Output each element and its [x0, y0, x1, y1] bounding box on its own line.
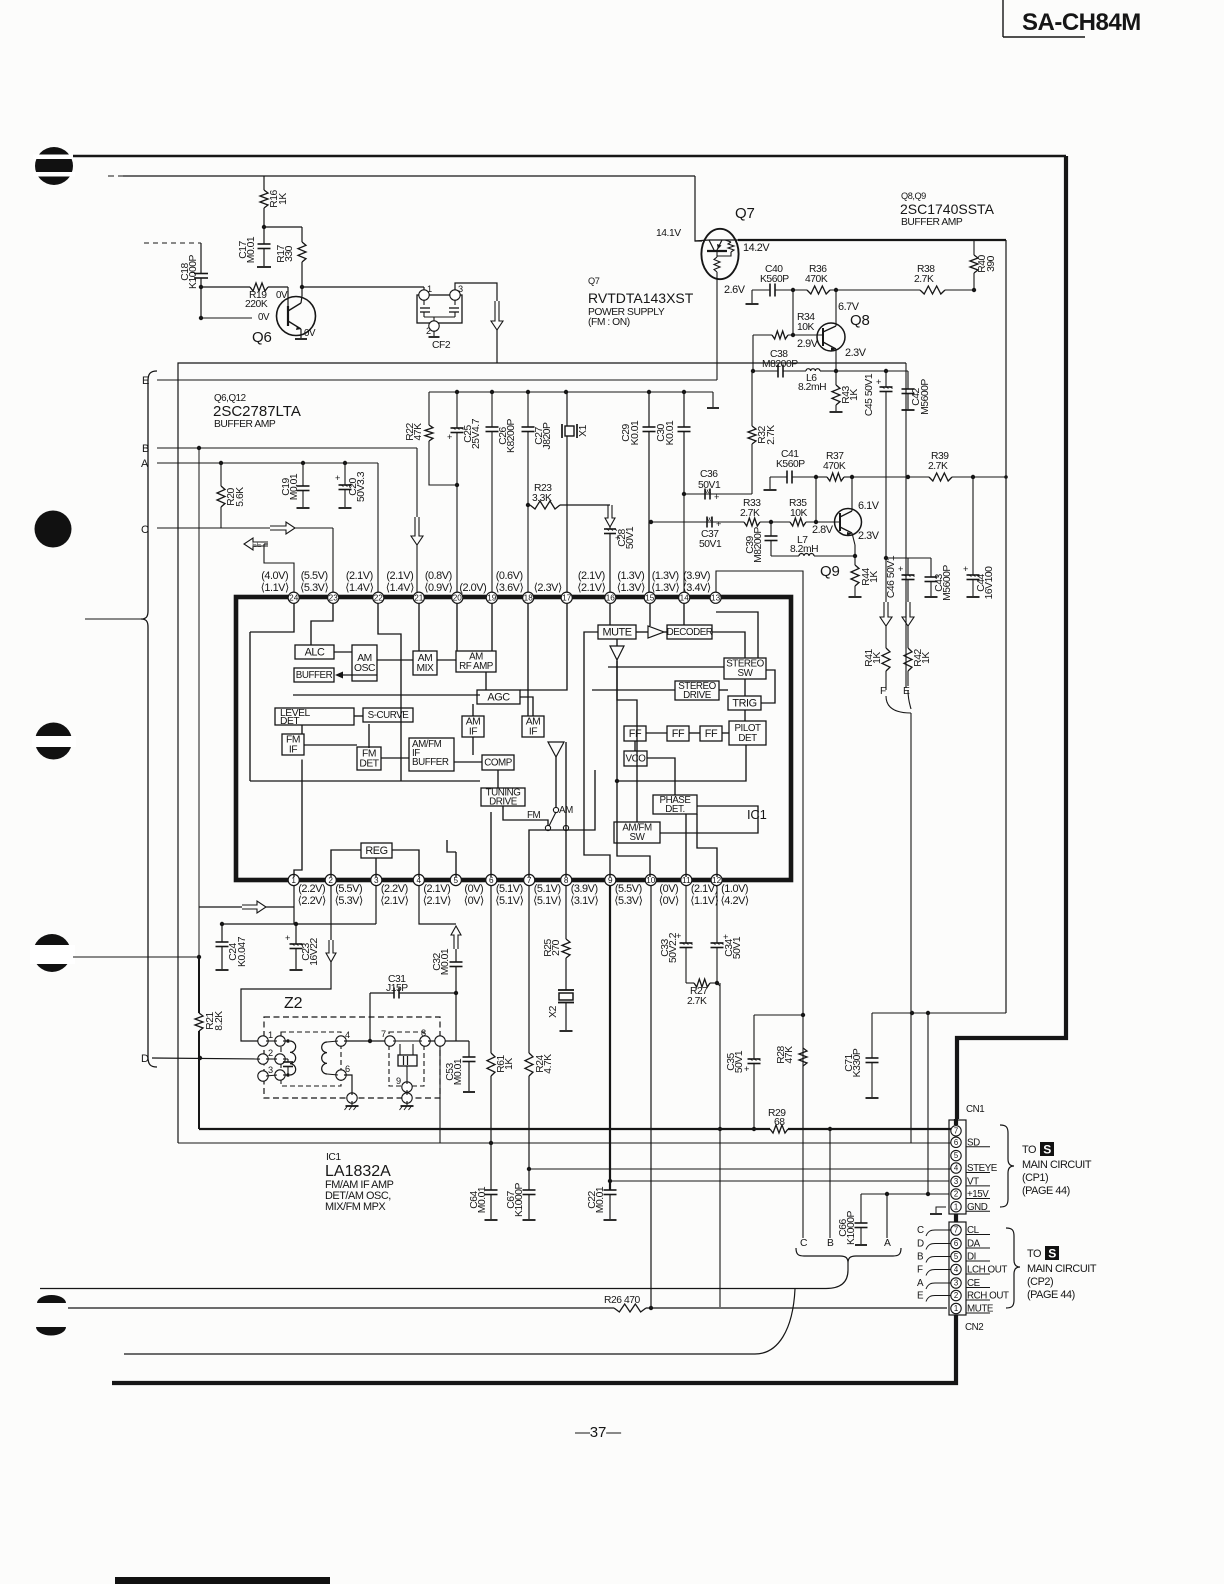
svg-text:10K: 10K	[790, 508, 808, 519]
wire pin13 outer	[716, 571, 803, 1129]
connector CN1 label	[966, 1104, 984, 1115]
capacitor C20	[335, 463, 367, 508]
net arrow C28	[605, 505, 615, 527]
block AM IF 2	[522, 716, 544, 738]
pin 13	[682, 570, 721, 603]
svg-text:SW: SW	[630, 832, 646, 843]
wire pin15 col	[648, 522, 650, 592]
label Q6	[252, 329, 272, 346]
capacitor C19	[281, 463, 310, 508]
label D net	[141, 1053, 149, 1065]
svg-text:(2.1V): (2.1V)	[578, 570, 605, 582]
net arrow pin1	[199, 901, 294, 913]
connector CN2 label	[965, 1322, 983, 1333]
junction	[972, 288, 976, 292]
voltage 6.7V	[838, 301, 860, 313]
svg-text:S-CURVE: S-CURVE	[368, 710, 410, 721]
wire Z2 link	[344, 1040, 387, 1042]
svg-text:K560P: K560P	[776, 459, 805, 470]
net arrow pin4	[451, 926, 461, 949]
junction	[649, 520, 653, 524]
capacitor C64	[469, 1186, 498, 1220]
registration mark 1	[33, 147, 75, 185]
label Z2	[284, 995, 303, 1012]
pin 14	[651, 570, 690, 603]
svg-text:25V4.7: 25V4.7	[471, 418, 482, 449]
net arrow EE left	[244, 538, 268, 550]
svg-text:M0.01: M0.01	[453, 1058, 464, 1085]
svg-text:0V: 0V	[258, 312, 270, 323]
svg-text:4: 4	[954, 1164, 959, 1173]
thick CN2 bottom	[112, 1315, 956, 1383]
svg-text:EE: EE	[252, 540, 262, 549]
wire R37 to R39	[852, 476, 929, 478]
pin 10	[645, 874, 679, 907]
wire 1006 down	[1005, 240, 1007, 1013]
label A node	[884, 1238, 891, 1249]
capacitor C35	[726, 1015, 761, 1129]
mute triangle	[610, 646, 624, 660]
inductor L6	[798, 369, 836, 393]
junction	[769, 520, 773, 524]
resistor R21	[195, 957, 225, 1129]
wire C35 top	[752, 1013, 805, 1131]
svg-text:8: 8	[421, 1028, 426, 1038]
thick right border	[957, 156, 1066, 1119]
junction	[526, 503, 530, 507]
svg-text:50V3.3: 50V3.3	[356, 471, 367, 502]
svg-text:(CP2): (CP2)	[1027, 1276, 1053, 1288]
svg-text:A: A	[141, 458, 149, 470]
wire C41 div	[815, 477, 817, 522]
resistor R42	[904, 626, 932, 686]
svg-text:1: 1	[268, 1030, 273, 1040]
svg-text:M5600P: M5600P	[920, 379, 931, 415]
junction	[834, 369, 838, 373]
capacitor C37	[699, 517, 722, 551]
svg-text:0V: 0V	[304, 328, 316, 339]
capacitor C36	[698, 469, 721, 502]
voltage 14.2V	[743, 242, 770, 254]
pin 15	[617, 570, 656, 603]
resistor R40	[970, 240, 997, 290]
junction	[715, 981, 719, 985]
svg-text:(CP1): (CP1)	[1022, 1172, 1048, 1184]
wire B line	[157, 448, 417, 517]
svg-text:—37—: —37—	[575, 1424, 621, 1441]
svg-text:270: 270	[551, 939, 562, 956]
svg-text:⟨2.1V⟩: ⟨2.1V⟩	[380, 895, 408, 907]
label 2SC2787LTA	[213, 393, 301, 430]
svg-text:C45 50V1: C45 50V1	[864, 373, 875, 416]
svg-text:F: F	[880, 686, 886, 697]
wire brace lead	[85, 618, 141, 620]
svg-text:Q8: Q8	[850, 312, 870, 329]
pin 24	[261, 570, 300, 603]
svg-text:Q9: Q9	[820, 563, 840, 580]
svg-text:D: D	[141, 1053, 149, 1065]
block AM MIX	[413, 651, 437, 675]
IC1 internal wires	[250, 603, 775, 877]
svg-text:K560P: K560P	[760, 274, 789, 285]
wire second rail	[108, 175, 695, 177]
svg-text:RVTDTA143XST: RVTDTA143XST	[588, 290, 694, 306]
svg-text:Q7: Q7	[735, 205, 755, 222]
wire Q8 emitter	[835, 349, 837, 371]
wire +15V line	[861, 1192, 949, 1196]
capacitor C26	[486, 392, 518, 592]
inductor L7	[771, 535, 855, 556]
wire pin2 riser	[330, 886, 332, 941]
transistor Q8	[817, 323, 845, 351]
junction	[219, 461, 223, 465]
svg-text:1K: 1K	[921, 652, 932, 664]
pin 2	[325, 874, 363, 907]
svg-text:A: A	[917, 1278, 924, 1289]
wire pin12 col down	[717, 983, 720, 1307]
capacitor C33	[660, 886, 693, 984]
voltage 6.1V	[858, 500, 880, 512]
svg-text:D: D	[917, 1239, 924, 1250]
junction	[814, 475, 818, 479]
label E net	[142, 375, 149, 387]
svg-text:23: 23	[329, 594, 339, 603]
svg-text:⟨3.1V⟩: ⟨3.1V⟩	[570, 895, 598, 907]
svg-text:B: B	[917, 1252, 924, 1263]
svg-text:(0V): (0V)	[464, 883, 483, 895]
svg-text:2: 2	[954, 1291, 958, 1300]
voltage 2.6V	[724, 284, 746, 296]
svg-text:6: 6	[489, 876, 494, 885]
svg-text:1K: 1K	[872, 652, 883, 664]
svg-text:⟨2.1V⟩: ⟨2.1V⟩	[577, 582, 605, 594]
svg-text:18: 18	[524, 594, 534, 603]
svg-text:390: 390	[986, 255, 997, 272]
net arrow FM supply	[491, 301, 503, 330]
svg-text:5: 5	[954, 1151, 959, 1160]
wire Z2 pin6 out	[344, 1075, 352, 1095]
resistor R37	[816, 451, 852, 481]
block FM DET	[357, 747, 381, 770]
junction	[343, 461, 347, 465]
switch FM AM	[527, 805, 573, 831]
svg-text:(0.8V): (0.8V)	[425, 570, 452, 582]
net arrow down	[880, 602, 892, 626]
junction	[199, 285, 203, 289]
svg-text:M5600P: M5600P	[942, 565, 953, 601]
svg-text:K0.01: K0.01	[630, 420, 641, 445]
svg-text:1: 1	[427, 284, 432, 294]
wire C45 row	[836, 370, 908, 372]
resistor R35	[760, 498, 840, 526]
crystal X1	[562, 392, 589, 592]
wire Q8 collector	[835, 290, 837, 326]
capacitor C39	[745, 522, 778, 563]
svg-text:1: 1	[291, 876, 296, 885]
wire VT line	[608, 1179, 949, 1183]
capacitor C40	[746, 264, 790, 304]
svg-text:+: +	[963, 564, 968, 574]
svg-text:C46 50V1: C46 50V1	[886, 555, 897, 598]
svg-text:8.2mH: 8.2mH	[790, 544, 818, 555]
wire base row	[651, 521, 744, 523]
svg-text:2.7K: 2.7K	[914, 274, 934, 285]
svg-text:47K: 47K	[784, 1046, 795, 1064]
wire top rail	[73, 155, 1066, 158]
wire STEYE line	[529, 1168, 951, 1170]
svg-text:8: 8	[564, 876, 569, 885]
junction	[884, 369, 888, 373]
wire MUTE line	[68, 1307, 947, 1309]
wire 14.2V rail	[738, 239, 1006, 241]
svg-text:(2.1V): (2.1V)	[423, 883, 450, 895]
capacitor C46	[886, 555, 915, 602]
block COMP	[482, 755, 514, 770]
capacitor C44	[963, 477, 995, 599]
svg-text:FF: FF	[629, 728, 642, 740]
resistor R24	[525, 886, 554, 1191]
svg-text:B: B	[142, 443, 149, 455]
wire D line	[152, 1056, 260, 1060]
junction	[197, 446, 201, 450]
block AMFM IF BUFFER	[409, 738, 454, 771]
resistor R22	[405, 423, 457, 485]
svg-text:IF: IF	[289, 745, 297, 756]
svg-text:7: 7	[954, 1226, 958, 1235]
svg-text:R26 470: R26 470	[604, 1295, 641, 1306]
junction	[455, 483, 459, 487]
svg-text:M8200P: M8200P	[762, 359, 798, 370]
wire x199 col	[198, 448, 200, 957]
capacitor C67	[506, 1182, 536, 1220]
svg-text:4: 4	[417, 876, 422, 885]
junction	[906, 475, 910, 479]
voltage 14.1V	[656, 228, 681, 239]
svg-text:10: 10	[646, 876, 656, 885]
svg-text:K0.01: K0.01	[665, 420, 676, 445]
svg-text:5: 5	[454, 876, 459, 885]
svg-text:7: 7	[527, 876, 532, 885]
wire Q9 emitter	[852, 533, 855, 556]
svg-text:K1000P: K1000P	[846, 1210, 857, 1245]
wire C36 row	[682, 492, 752, 496]
svg-text:(4.0V): (4.0V)	[261, 570, 288, 582]
wire curve line	[124, 1289, 795, 1354]
capacitor C34	[711, 886, 744, 984]
registration mark 5	[37, 1295, 66, 1303]
label A net	[141, 458, 149, 470]
ground Z2 pin6	[345, 1101, 359, 1110]
svg-text:CF2: CF2	[432, 340, 451, 351]
transistor Q7	[695, 229, 739, 279]
thick pin7 line	[199, 1127, 951, 1131]
transistor Q6	[277, 287, 316, 339]
thick CN1 stub	[954, 1119, 958, 1125]
svg-text:⟨2.2V⟩: ⟨2.2V⟩	[298, 895, 326, 907]
label B net	[142, 443, 149, 455]
registration mark 4	[30, 934, 75, 972]
wire E line	[157, 379, 717, 381]
block STEREO SW	[724, 658, 766, 679]
svg-text:17: 17	[562, 594, 572, 603]
svg-text:C: C	[141, 524, 149, 536]
svg-text:(PAGE 44): (PAGE 44)	[1027, 1289, 1075, 1301]
svg-text:5: 5	[954, 1252, 959, 1261]
block ALC	[295, 645, 334, 659]
svg-text:50V2.2: 50V2.2	[668, 932, 679, 963]
svg-text:6: 6	[345, 1064, 350, 1074]
resistor R16	[260, 176, 289, 227]
label IC1	[747, 807, 767, 822]
junction	[971, 475, 975, 479]
label Q8	[850, 312, 870, 329]
capacitor C17	[238, 227, 271, 267]
svg-text:(1.0V): (1.0V)	[721, 883, 748, 895]
svg-text:CN2: CN2	[965, 1322, 983, 1333]
svg-text:1K: 1K	[869, 571, 880, 583]
resistor R44	[849, 556, 881, 597]
svg-text:⟨5.3V⟩: ⟨5.3V⟩	[614, 895, 642, 907]
svg-text:7: 7	[954, 1126, 958, 1135]
wire R17 top	[264, 226, 302, 228]
capacitor C25	[447, 392, 482, 592]
svg-text:+: +	[898, 564, 903, 574]
svg-text:MAIN CIRCUIT: MAIN CIRCUIT	[1027, 1263, 1097, 1275]
svg-text:K1000P: K1000P	[514, 1182, 525, 1217]
box1 outline	[178, 363, 906, 1143]
svg-text:+: +	[876, 377, 881, 387]
svg-text:C: C	[917, 1225, 924, 1236]
capacitor C27	[522, 392, 554, 592]
brace CN2	[1006, 1228, 1020, 1308]
svg-text:C: C	[800, 1238, 808, 1249]
resistor R39	[928, 451, 1006, 481]
capacitor C32	[432, 948, 463, 993]
svg-text:SW: SW	[738, 668, 754, 679]
svg-text:Q7: Q7	[588, 276, 600, 286]
svg-text:⟨1.3V⟩: ⟨1.3V⟩	[651, 582, 679, 594]
junction	[526, 390, 530, 394]
svg-text:10K: 10K	[797, 322, 815, 333]
bottom-left black bar	[115, 1577, 330, 1584]
wire R36 to R38	[830, 289, 920, 291]
wire Q6 base	[201, 287, 288, 307]
block STEREO DRIVE	[675, 681, 719, 701]
svg-text:J820P: J820P	[542, 422, 553, 450]
svg-text:6.1V: 6.1V	[858, 500, 880, 512]
junction	[564, 390, 568, 394]
crystal X2	[548, 990, 574, 1031]
svg-text:19: 19	[487, 594, 497, 603]
buffer triangle	[648, 626, 664, 638]
wire pin2 to Z2	[241, 962, 331, 1041]
net arrow C right	[270, 522, 333, 592]
label Q8 Q9 part	[900, 191, 995, 228]
svg-text:22: 22	[374, 594, 384, 603]
wire mark4 line	[73, 955, 201, 959]
junction	[455, 390, 459, 394]
svg-text:20: 20	[453, 594, 463, 603]
wire Q9 collector	[851, 477, 853, 511]
resistor R20	[217, 463, 246, 528]
wire Q8 left col	[752, 335, 754, 371]
wire top rail 392	[429, 392, 719, 425]
capacitor C28	[604, 526, 636, 592]
svg-text:1: 1	[954, 1304, 958, 1313]
svg-text:BUFFER: BUFFER	[412, 757, 449, 768]
title box	[1003, 0, 1141, 37]
junction	[828, 1127, 832, 1131]
block LEVEL DET	[275, 708, 354, 727]
junction	[853, 554, 857, 558]
capacitor C42	[902, 371, 932, 415]
wire Q7 emitter stub	[716, 279, 718, 380]
svg-text:C36: C36	[700, 469, 718, 480]
svg-text:2: 2	[328, 876, 333, 885]
svg-text:330: 330	[284, 245, 295, 262]
svg-text:8.2K: 8.2K	[214, 1011, 225, 1031]
capacitor C71	[844, 1013, 879, 1098]
svg-text:X2: X2	[548, 1005, 559, 1017]
svg-text:9: 9	[396, 1076, 401, 1086]
if triangle	[548, 742, 564, 757]
svg-text:1: 1	[954, 1202, 958, 1211]
wire A col	[886, 1194, 888, 1238]
svg-text:IC1: IC1	[326, 1152, 341, 1163]
voltage 2.8V	[812, 524, 834, 536]
svg-text:220K: 220K	[245, 299, 268, 310]
svg-text:2.3V: 2.3V	[858, 530, 880, 542]
block AGC	[477, 690, 520, 704]
capacitor C24	[216, 924, 249, 970]
wire Z2 box drop	[439, 1046, 441, 1143]
wire RCH line	[40, 1288, 826, 1290]
thick CN2 link	[954, 1214, 958, 1222]
pin 20	[424, 570, 463, 603]
svg-text:IC1: IC1	[747, 807, 767, 822]
svg-text:⟨1.1V⟩: ⟨1.1V⟩	[690, 895, 718, 907]
pin 16	[577, 570, 616, 603]
pin 22	[345, 570, 384, 603]
block AM IF 1	[462, 716, 484, 738]
junction	[791, 333, 795, 337]
resistor R23	[530, 483, 610, 509]
junction	[814, 520, 818, 524]
svg-text:⟨2.1V⟩: ⟨2.1V⟩	[423, 895, 451, 907]
registration mark 3	[32, 723, 76, 760]
resistor R61	[487, 886, 515, 1191]
svg-text:2.7K: 2.7K	[740, 508, 760, 519]
block FF2	[667, 726, 689, 741]
svg-text:Q8,Q9: Q8,Q9	[901, 191, 926, 201]
wire C46 row	[886, 557, 931, 559]
svg-text:S: S	[1048, 1247, 1056, 1261]
net arrow pin2	[326, 940, 336, 962]
svg-text:16V22: 16V22	[309, 938, 320, 966]
svg-text:IF: IF	[529, 727, 537, 738]
registration mark 2	[35, 511, 72, 548]
capacitor C22	[587, 1186, 617, 1220]
IC1 box	[236, 597, 791, 880]
svg-text:⟨3.6V⟩: ⟨3.6V⟩	[495, 582, 523, 594]
block AMFM SW	[614, 822, 660, 843]
CN2 hooks	[917, 1225, 951, 1302]
svg-text:6: 6	[954, 1138, 958, 1147]
svg-text:(3.9V): (3.9V)	[571, 883, 598, 895]
svg-text:(5.5V): (5.5V)	[615, 883, 642, 895]
svg-text:(1.3V): (1.3V)	[617, 570, 644, 582]
svg-text:+: +	[335, 473, 340, 483]
